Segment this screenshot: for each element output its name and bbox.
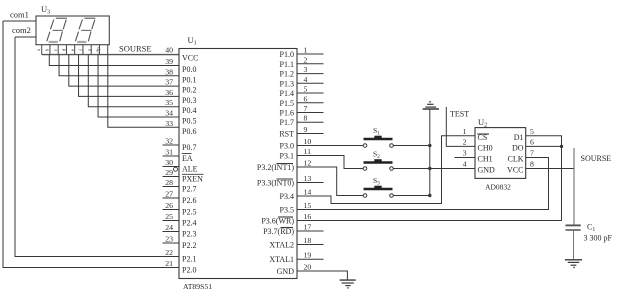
svg-text:6: 6: [530, 138, 534, 147]
svg-text:P3.5: P3.5: [280, 206, 294, 215]
svg-text:26: 26: [165, 201, 173, 210]
U1 pin 23 (P2.2): [163, 235, 197, 251]
capacitor C1 value 3 300 pF: [584, 234, 613, 243]
svg-text:37: 37: [165, 78, 173, 87]
svg-text:RST: RST: [279, 130, 294, 139]
capacitor C1 bottom plate: [566, 229, 581, 231]
U1 pin 21 (P2.0): [165, 259, 196, 275]
wire display segment to P0.3: [79, 55, 179, 97]
label SOURSE (left): [119, 44, 152, 54]
U2 pin 6 (DO): [512, 138, 534, 153]
svg-text:31: 31: [165, 148, 173, 157]
U1 pin 5 (P1.4): [280, 85, 324, 99]
svg-text:P0.6: P0.6: [182, 127, 196, 136]
ground (below C1): [565, 260, 582, 268]
wire P3.5 to U2 CLK: [297, 158, 549, 210]
U1 pin 27 (P2.6): [163, 190, 197, 206]
svg-text:EA: EA: [182, 154, 193, 163]
wire P3.0 to S1: [297, 145, 363, 147]
wire display segment to P0.6: [108, 55, 179, 128]
U2 pin 8 (VCC): [507, 160, 534, 175]
U1 pin 34 (P0.5): [165, 109, 196, 126]
ground (below U1): [340, 280, 356, 288]
adc U2 label: [478, 117, 487, 129]
svg-text:P1.3: P1.3: [280, 79, 294, 88]
svg-text:CH0: CH0: [478, 144, 493, 153]
7-segment display U3 body: [36, 16, 109, 45]
svg-text:P1.0: P1.0: [280, 50, 294, 59]
svg-text:P0.3: P0.3: [182, 96, 196, 105]
U1 pin 18 (XTAL2): [269, 236, 323, 250]
svg-text:34: 34: [165, 109, 173, 118]
svg-text:21: 21: [165, 259, 173, 268]
node S1-bus junction: [428, 144, 431, 147]
U2 pin 7 (CLK): [508, 149, 535, 164]
wire display segment to P0.1: [59, 55, 179, 76]
svg-text:AT89S51: AT89S51: [183, 282, 212, 291]
U1 pin 26 (P2.5): [163, 201, 197, 217]
U1 pin 14 (P3.4): [280, 188, 312, 202]
capacitor C1 label: [587, 223, 595, 234]
svg-text:12: 12: [304, 159, 312, 168]
svg-text:P1.7: P1.7: [280, 118, 294, 127]
svg-text:P2.7: P2.7: [182, 185, 196, 194]
svg-text:32: 32: [165, 137, 173, 146]
svg-text:5: 5: [304, 85, 308, 94]
svg-text:24: 24: [165, 223, 173, 232]
svg-text:28: 28: [165, 178, 173, 187]
svg-text:D1: D1: [514, 133, 524, 142]
label com2: [12, 25, 31, 35]
U1 pin 13 (P3.3(INT0)): [257, 174, 324, 188]
svg-text:36: 36: [165, 88, 173, 97]
svg-text:P3.3(INT0): P3.3(INT0): [257, 179, 294, 188]
svg-text:P3.0: P3.0: [280, 142, 294, 151]
wire display segment to P0.5: [98, 55, 179, 117]
U1 pin 9 (RST): [279, 125, 323, 139]
U2 pin 3 stub (CH1, n.c.): [455, 157, 476, 159]
svg-text:P2.3: P2.3: [182, 230, 196, 239]
svg-text:P0.2: P0.2: [182, 86, 196, 95]
svg-text:P0.5: P0.5: [182, 117, 196, 126]
svg-text:7: 7: [530, 149, 534, 158]
U1 pin 19 (XTAL1): [269, 251, 323, 265]
wire C1 to ground: [573, 230, 575, 260]
svg-text:P0.7: P0.7: [182, 143, 196, 152]
svg-text:P2.2: P2.2: [182, 241, 196, 250]
U2 pin 1 (CS): [463, 127, 489, 142]
U1 pin 35 (P0.4): [165, 98, 196, 115]
svg-text:GND: GND: [277, 267, 295, 276]
wire TEST to CH0: [446, 107, 475, 146]
svg-text:P1.2: P1.2: [280, 70, 294, 79]
svg-text:b: b: [44, 48, 50, 51]
svg-text:P3.2(INT1): P3.2(INT1): [257, 163, 294, 172]
U2 pin 4 (GND): [463, 160, 495, 175]
svg-text:P3.1: P3.1: [280, 152, 294, 161]
svg-text:22: 22: [165, 248, 173, 257]
wire display segment to P0.0: [49, 55, 179, 66]
svg-text:8: 8: [304, 114, 308, 123]
svg-text:g: g: [87, 48, 93, 51]
svg-text:P2.5: P2.5: [182, 208, 196, 217]
svg-text:14: 14: [304, 188, 312, 197]
U1 pin 6 (P1.5): [280, 94, 324, 108]
U1 pin 1 (P1.0): [280, 46, 324, 60]
U1 pin 17 (P3.7(RD)): [263, 223, 323, 237]
svg-text:P1.5: P1.5: [280, 99, 294, 108]
U1 pin 24 (P2.3): [163, 223, 197, 239]
display segment pin labels a-g,dp: [36, 47, 101, 53]
wire com1 vertical to P2.0: [3, 21, 179, 268]
U1 pin 30 (ALE): [163, 158, 198, 174]
ground (top, inverted symbol): [423, 102, 439, 109]
U2 pin 2 (CH0): [463, 138, 493, 153]
svg-text:P0.4: P0.4: [182, 106, 196, 115]
switch S3: [363, 176, 393, 197]
svg-text:P3.7(RD): P3.7(RD): [263, 227, 294, 236]
svg-text:P2.1: P2.1: [182, 255, 196, 264]
svg-text:GND: GND: [478, 166, 496, 175]
svg-text:d: d: [61, 48, 67, 51]
svg-text:10: 10: [304, 137, 312, 146]
svg-text:P0.0: P0.0: [182, 65, 196, 74]
U1 pin 7 (P1.6): [280, 104, 324, 118]
label SOURSE (right): [581, 154, 612, 163]
svg-text:4: 4: [304, 75, 308, 84]
U1 pin 8 (P1.7): [280, 114, 324, 128]
wire display common rail to VCC pin 40: [42, 54, 179, 56]
display pin cells: [42, 45, 108, 55]
display digit 2 (seven-segment glyph): [75, 18, 95, 42]
U1 pin 39 (P0.0): [165, 57, 196, 74]
microcontroller U1 label: [188, 35, 197, 47]
svg-text:2: 2: [304, 55, 308, 64]
svg-text:4: 4: [463, 160, 467, 169]
svg-text:27: 27: [165, 190, 173, 199]
U1 pin 4 (P1.3): [280, 75, 324, 89]
wire com2 vertical to P2.1: [15, 37, 179, 257]
U1 pin 28 (P2.7): [163, 178, 197, 194]
svg-text:15: 15: [304, 201, 312, 210]
wire P3.4 to U2 CS: [297, 136, 475, 204]
svg-text:P2.6: P2.6: [182, 196, 196, 205]
svg-text:CLK: CLK: [508, 155, 524, 164]
U1 pin 37 (P0.2): [165, 78, 196, 95]
svg-text:3: 3: [304, 65, 308, 74]
svg-text:38: 38: [165, 67, 173, 76]
svg-text:8: 8: [530, 160, 534, 169]
wire S3 to ground bus: [394, 195, 430, 197]
U1 pin 32 (P0.7): [163, 137, 197, 153]
svg-text:3 300 pF: 3 300 pF: [584, 234, 613, 243]
capacitor C1 top plate: [566, 224, 581, 226]
node S2-bus junction: [428, 167, 431, 170]
svg-text:39: 39: [165, 57, 173, 66]
svg-text:25: 25: [165, 212, 173, 221]
U1 pin 20 (GND): [277, 263, 312, 277]
svg-text:40: 40: [165, 46, 173, 55]
svg-text:AD0832: AD0832: [485, 183, 511, 192]
wire U2 D1 to DO: [526, 136, 562, 147]
wire display segment to P0.4: [88, 55, 179, 107]
svg-text:23: 23: [165, 235, 173, 244]
svg-text:XTAL1: XTAL1: [269, 255, 294, 264]
U1 pin 3 (P1.2): [280, 65, 324, 79]
node D1/DO junction: [560, 145, 563, 148]
svg-text:11: 11: [304, 147, 312, 156]
svg-text:P3.6(WR): P3.6(WR): [261, 217, 294, 226]
label TEST: [450, 110, 469, 119]
wire SOURSE rail: [573, 148, 575, 225]
wire S2 to ground bus: [394, 168, 430, 170]
wire P3.6 to U2 DO: [297, 146, 562, 220]
svg-text:6: 6: [304, 94, 308, 103]
svg-text:2: 2: [463, 138, 467, 147]
U1 pin 33 (P0.6): [165, 119, 196, 136]
svg-text:20: 20: [304, 263, 312, 272]
label com1: [10, 10, 29, 20]
svg-text:ALE: ALE: [182, 165, 198, 174]
node S3-bus junction: [428, 194, 431, 197]
wire S1 to ground bus: [394, 145, 430, 147]
U1 pin 22 (P2.1): [165, 248, 196, 264]
U1 pin 40 (VCC): [165, 46, 198, 63]
svg-text:18: 18: [304, 236, 312, 245]
svg-text:CH1: CH1: [478, 155, 493, 164]
7-segment display U3 label: [41, 4, 50, 16]
svg-text:XTAL2: XTAL2: [269, 241, 294, 250]
svg-text:f: f: [77, 49, 84, 51]
svg-text:com1: com1: [10, 10, 29, 20]
U1 pin 11 (P3.1): [280, 147, 312, 161]
svg-text:SOURSE: SOURSE: [119, 44, 152, 54]
U1 pin 2 (P1.1): [280, 55, 324, 69]
svg-text:16: 16: [304, 212, 312, 221]
wire U2 GND pin to ground bus (through S2 junction): [430, 168, 475, 170]
U2 part number AD0832: [485, 183, 511, 192]
svg-text:VCC: VCC: [507, 166, 523, 175]
U1 pin 25 (P2.4): [163, 212, 197, 228]
display digit 1 (seven-segment glyph): [47, 18, 67, 42]
svg-text:P2.0: P2.0: [182, 266, 196, 275]
svg-text:35: 35: [165, 98, 173, 107]
svg-text:9: 9: [304, 125, 308, 134]
wire P3.1 to S2 (jog): [297, 156, 363, 169]
svg-text:SOURSE: SOURSE: [581, 154, 612, 163]
svg-text:13: 13: [304, 174, 312, 183]
op U1 body (AT89S51): [179, 49, 297, 279]
svg-text:dp: dp: [95, 47, 101, 53]
svg-text:5: 5: [530, 127, 534, 136]
U1 pin 10 (P3.0): [280, 137, 312, 151]
svg-text:P1.1: P1.1: [280, 60, 294, 69]
wire U1 GND to ground: [297, 271, 347, 280]
svg-text:com2: com2: [12, 25, 31, 35]
U1 pin 16 (P3.6(WR)): [261, 212, 311, 226]
svg-text:P2.4: P2.4: [182, 219, 196, 228]
svg-text:33: 33: [165, 119, 173, 128]
svg-text:19: 19: [304, 251, 312, 260]
svg-text:P1.4: P1.4: [280, 89, 294, 98]
wire com1 to display: [3, 20, 36, 22]
wire P3.2 to S3 (down): [297, 167, 363, 196]
svg-text:30: 30: [165, 158, 173, 167]
U1 pin 31 (EA): [163, 148, 193, 164]
U1 pin 12 (P3.2(INT1)): [257, 159, 312, 173]
svg-text:PXEN: PXEN: [182, 175, 203, 184]
wire display segment to P0.2: [69, 55, 179, 87]
switch S2: [363, 150, 393, 171]
wire U2 VCC to SOURSE rail: [526, 168, 574, 170]
svg-text:P1.6: P1.6: [280, 109, 294, 118]
svg-text:TEST: TEST: [450, 110, 469, 119]
U1 part number AT89S51: [183, 282, 212, 291]
wire com2 to display: [15, 36, 36, 38]
svg-text:17: 17: [304, 223, 312, 232]
svg-text:1: 1: [463, 127, 467, 136]
svg-text:29: 29: [165, 168, 173, 177]
wire ground bus vertical: [429, 109, 431, 196]
svg-text:P0.1: P0.1: [182, 75, 196, 84]
switch S1: [363, 126, 393, 147]
U2 pin 5 (D1): [514, 127, 534, 142]
U1 pin 36 (P0.3): [165, 88, 196, 105]
U1 pin 15 (P3.5): [280, 201, 312, 215]
svg-text:VCC: VCC: [182, 54, 198, 63]
adc U2 body (AD0832): [475, 128, 526, 179]
U1 pin 38 (P0.1): [165, 67, 196, 84]
svg-text:3: 3: [463, 149, 467, 158]
svg-text:P3.4: P3.4: [280, 192, 294, 201]
svg-text:DO: DO: [512, 144, 524, 153]
U1 pin 29 (PXEN): [163, 168, 204, 184]
svg-text:7: 7: [304, 104, 308, 113]
svg-text:1: 1: [304, 46, 308, 55]
U2 pin 3 (CH1): [463, 149, 493, 164]
